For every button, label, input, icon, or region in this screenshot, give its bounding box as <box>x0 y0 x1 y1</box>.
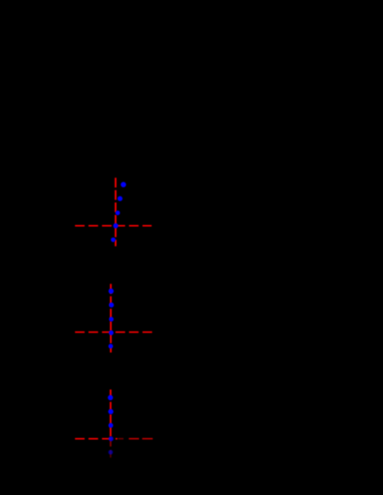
subplot 1 vertical dashed red line (axvline) <box>115 178 117 247</box>
subplot 2 data marker 1 <box>109 289 114 294</box>
subplot 2 data marker 5 <box>108 344 113 349</box>
subplot 1 data marker 5 <box>111 238 116 243</box>
subplot 3 data marker 1 <box>108 395 113 400</box>
subplot 2 vertical dashed red line (axvline) <box>110 284 112 353</box>
subplot 3 horizontal dashed red line dash 6 <box>142 438 153 440</box>
subplot 3 horizontal dashed red line left bright part (axhline) <box>75 438 118 440</box>
subplot 2 data marker 4 (on cross) <box>109 330 114 335</box>
subplot 3 data marker 3 <box>108 423 113 428</box>
subplot 1 data marker 3 <box>115 211 120 216</box>
subplot 3 horizontal dashed red line dim dash right of cross <box>118 438 123 440</box>
subplot 3 vertical dashed red line faint tail <box>110 450 112 458</box>
subplot 2 data marker 2 <box>109 303 114 308</box>
subplot 3 horizontal dashed red line dash 5 <box>129 438 139 440</box>
subplot 2 data marker 3 <box>109 317 114 322</box>
subplot 3 vertical dashed red line faded segment below cross <box>110 440 112 446</box>
subplot 3 vertical dashed red line upper bright part (axvline) <box>110 390 112 439</box>
subplot 2 horizontal dashed red line (axhline) <box>75 331 153 333</box>
subplot 1 data marker 2 <box>118 196 123 201</box>
subplot 1 data marker 4 (on cross) <box>113 223 118 228</box>
subplot 3 data marker 2 <box>108 409 113 414</box>
subplot 1 horizontal dashed red line (axhline) <box>75 225 152 227</box>
subplot 3 data marker 4 (on cross, faded) <box>109 436 114 441</box>
subplot 1 data marker 1 <box>121 182 126 187</box>
subplot 3 data marker 5 (faded) <box>108 450 113 455</box>
